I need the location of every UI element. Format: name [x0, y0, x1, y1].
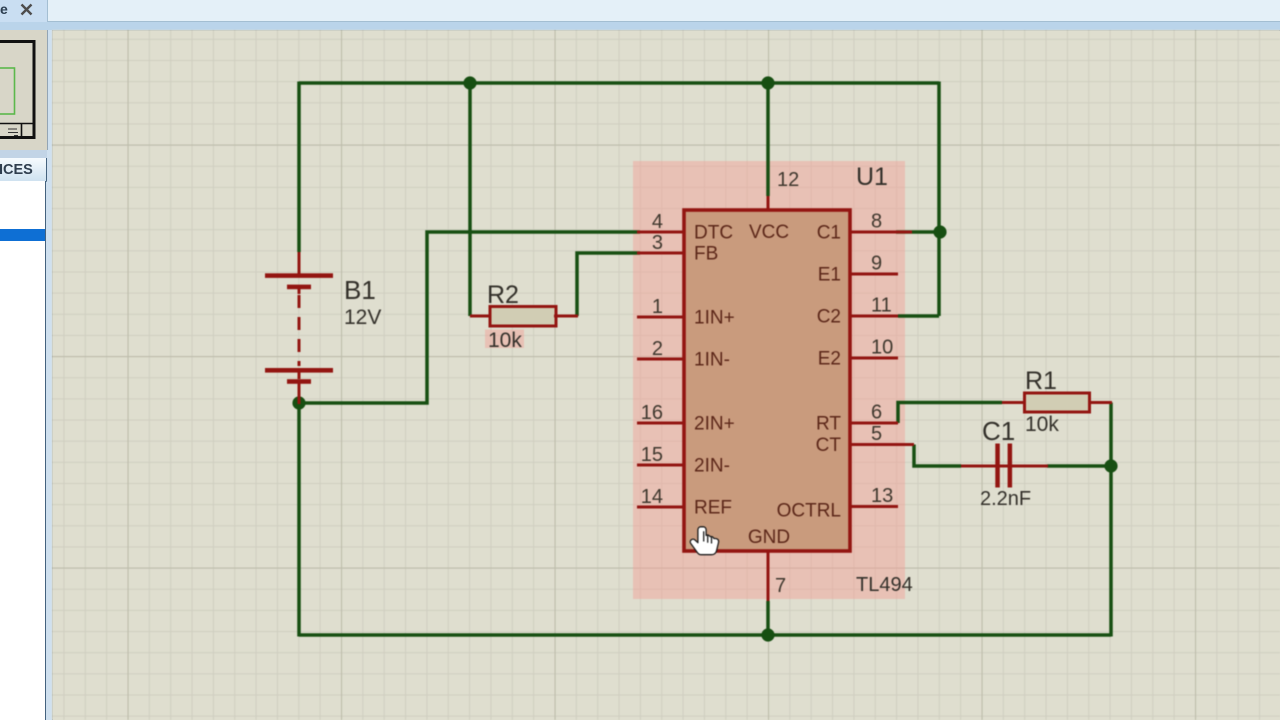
svg-text:16: 16	[641, 402, 663, 424]
svg-text:E2: E2	[818, 349, 841, 370]
svg-text:4: 4	[652, 211, 663, 233]
svg-text:TL494: TL494	[856, 574, 913, 596]
svg-text:8: 8	[871, 211, 882, 233]
svg-text:6: 6	[871, 402, 882, 424]
svg-text:12V: 12V	[344, 306, 381, 329]
svg-text:10k: 10k	[488, 329, 522, 352]
svg-text:2IN-: 2IN-	[694, 456, 730, 477]
svg-text:U1: U1	[856, 163, 888, 191]
svg-text:CT: CT	[816, 435, 842, 456]
svg-text:VCC: VCC	[749, 222, 789, 243]
svg-text:9: 9	[871, 253, 882, 275]
svg-text:C1: C1	[982, 416, 1015, 446]
svg-text:R2: R2	[487, 281, 519, 309]
svg-text:2: 2	[652, 338, 663, 360]
svg-text:13: 13	[871, 485, 893, 507]
svg-text:1: 1	[652, 296, 663, 318]
svg-text:12: 12	[777, 169, 799, 191]
svg-text:FB: FB	[694, 244, 718, 265]
svg-text:E1: E1	[818, 265, 841, 286]
svg-text:REF: REF	[694, 498, 732, 519]
svg-text:14: 14	[641, 486, 663, 508]
svg-text:15: 15	[641, 444, 663, 466]
svg-text:R1: R1	[1025, 367, 1057, 395]
svg-text:B1: B1	[344, 275, 376, 305]
svg-text:C1: C1	[817, 223, 841, 244]
svg-text:3: 3	[652, 232, 663, 254]
svg-text:OCTRL: OCTRL	[777, 501, 841, 522]
svg-text:1IN+: 1IN+	[694, 308, 735, 329]
svg-text:2IN+: 2IN+	[694, 414, 735, 435]
svg-text:10k: 10k	[1025, 413, 1059, 436]
svg-text:2.2nF: 2.2nF	[980, 488, 1031, 510]
svg-text:11: 11	[871, 295, 892, 317]
svg-text:RT: RT	[816, 414, 841, 435]
svg-text:5: 5	[871, 423, 882, 445]
svg-text:C2: C2	[817, 307, 841, 328]
svg-text:10: 10	[871, 337, 893, 359]
svg-text:1IN-: 1IN-	[694, 350, 730, 371]
svg-text:DTC: DTC	[694, 223, 733, 244]
svg-text:7: 7	[775, 575, 786, 597]
svg-text:GND: GND	[748, 527, 790, 548]
